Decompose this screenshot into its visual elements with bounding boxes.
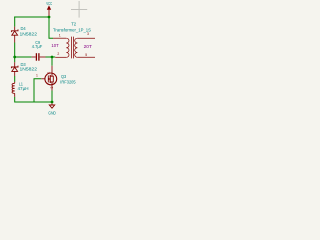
junction VCC node <box>48 16 51 19</box>
svg-text:4.7µF: 4.7µF <box>32 44 43 49</box>
svg-text:1: 1 <box>59 34 61 38</box>
svg-text:GND: GND <box>48 111 56 116</box>
svg-text:1N5822: 1N5822 <box>20 66 38 71</box>
transformer T2 primary winding <box>66 38 69 57</box>
wire VCC down to D4 <box>14 17 16 27</box>
svg-text:2: 2 <box>57 52 59 56</box>
transistor Q3 <box>45 73 57 85</box>
transformer T2 secondary winding <box>75 38 78 57</box>
wire gate branch <box>34 79 41 102</box>
svg-text:20T: 20T <box>84 44 93 49</box>
power symbol VCC <box>47 6 50 16</box>
power symbol GND <box>49 103 54 108</box>
wire D4 to node A <box>14 43 16 58</box>
anchor crosshair <box>71 1 87 18</box>
capacitor C9 pins <box>32 56 46 58</box>
svg-text:2: 2 <box>47 72 51 74</box>
wire VCC horizontal top <box>14 16 55 102</box>
inductor L1 pins <box>14 82 16 97</box>
svg-text:VCC: VCC <box>46 1 52 6</box>
diode D4 pins <box>14 27 16 43</box>
wire L1 to bottom rail <box>15 97 52 102</box>
junction node B <box>51 56 54 59</box>
diode D4 <box>11 29 18 35</box>
junction node A <box>13 56 16 59</box>
diode D3 pins <box>14 62 16 76</box>
capacitor C9 <box>36 53 39 61</box>
svg-text:3: 3 <box>87 32 89 36</box>
svg-text:Transformer_1P_1S: Transformer_1P_1S <box>53 27 91 32</box>
wire node B down to Q3 drain <box>51 57 53 66</box>
svg-text:IRF3205: IRF3205 <box>60 79 76 84</box>
svg-text:10T: 10T <box>51 43 59 48</box>
junction GND node <box>51 101 54 104</box>
svg-text:3: 3 <box>50 87 54 89</box>
wire Q3 source to GND node <box>51 91 53 103</box>
wire D3 to L1 <box>14 76 16 82</box>
transistor Q3 pins <box>41 66 52 91</box>
svg-text:T2: T2 <box>71 22 77 27</box>
svg-text:5: 5 <box>85 53 87 57</box>
diode D3 <box>11 66 18 72</box>
svg-text:47µH: 47µH <box>18 86 29 91</box>
transformer T2 core <box>72 37 74 59</box>
svg-text:1N5822: 1N5822 <box>20 31 38 36</box>
svg-text:1: 1 <box>36 73 38 77</box>
inductor L1 <box>12 83 15 93</box>
wire C9 to T2 pin 2 <box>46 56 56 58</box>
transformer T2 pins <box>53 38 95 57</box>
wire node A to D3 <box>14 57 16 62</box>
wire VCC down to T2 pin 1 <box>49 16 53 38</box>
wire node A to C9 <box>14 56 31 58</box>
